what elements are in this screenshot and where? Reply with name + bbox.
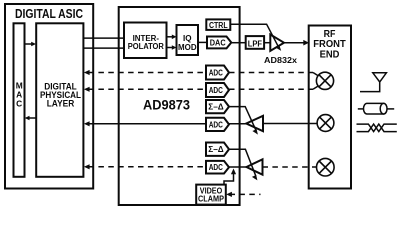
arrow MAC to DPL <box>25 42 37 47</box>
AD9873 box <box>119 7 240 205</box>
svg-text:CTRL: CTRL <box>209 20 228 30</box>
dashed wire amp2 to mixer3 <box>263 166 318 168</box>
svg-text:ADC: ADC <box>209 162 223 172</box>
IQ mod box <box>177 25 199 55</box>
svg-text:POLATOR: POLATOR <box>128 42 164 51</box>
wires DPL to interpolator <box>83 38 124 48</box>
svg-text:MOD: MOD <box>178 43 197 52</box>
label INTERPOLATOR <box>128 34 164 51</box>
arrows interpolator to IQ mod <box>167 35 177 50</box>
ADC4 port <box>206 161 229 174</box>
svg-text:ADC: ADC <box>209 67 223 77</box>
dashed video input wire with arrow into video clamp <box>226 192 260 197</box>
label DIGITAL PHYSICAL LAYER <box>40 82 81 109</box>
wire DAC to LPF <box>231 42 245 44</box>
mixer 2 <box>317 115 334 132</box>
svg-text:AD832x: AD832x <box>264 55 297 65</box>
wire amp to RF front end with arrow <box>284 40 309 46</box>
coax cable cylinder <box>358 103 394 114</box>
wire IQ mod to DAC <box>198 41 207 43</box>
dashed wire ADC4 to DPL with arrow <box>84 164 206 169</box>
RX amp 1 <box>246 116 263 131</box>
svg-text:IQ: IQ <box>183 34 192 43</box>
label IQ MOD <box>178 34 197 52</box>
sigma-delta 1 port <box>206 100 229 113</box>
ADC3 port <box>206 118 229 131</box>
MAC letters <box>16 80 23 108</box>
antenna <box>360 73 386 92</box>
LPF box <box>246 36 264 49</box>
svg-text:C: C <box>16 99 22 109</box>
wire amp1 to mixer2 <box>263 123 317 125</box>
svg-text:Σ–Δ: Σ–Δ <box>208 144 223 154</box>
RX amp 2 <box>247 159 263 174</box>
CTRL port <box>206 19 230 30</box>
arrow DPL to MAC <box>25 116 36 121</box>
video clamp box <box>196 185 226 205</box>
sigma-delta 1 wire with gain arrow into RX amp1 <box>229 107 258 135</box>
interpolator box <box>124 23 167 59</box>
digital ASIC outer box <box>5 4 93 189</box>
label RF FRONT END <box>313 29 345 61</box>
video clamp up elbow arrow to ADC4 input <box>224 169 236 185</box>
dashed wire ADC1 to DPL with arrow <box>84 70 206 75</box>
twisted pair <box>357 124 397 132</box>
digital physical layer block <box>36 23 83 177</box>
sigma-delta 2 wire with gain arrow into RX amp2 <box>229 149 257 180</box>
svg-text:ADC: ADC <box>209 85 223 95</box>
sigma-delta 2 port <box>206 143 229 156</box>
TX VGA amp AD832x <box>270 35 284 51</box>
DAC port <box>207 37 231 49</box>
dashed wire ADC2 to DPL with arrow <box>84 87 206 92</box>
svg-text:DIGITAL ASIC: DIGITAL ASIC <box>15 6 83 21</box>
svg-text:AD9873: AD9873 <box>143 96 190 112</box>
svg-text:DAC: DAC <box>210 37 226 47</box>
wire LPF to amp <box>264 42 270 44</box>
svg-text:CLAMP: CLAMP <box>198 193 224 203</box>
svg-text:END: END <box>320 50 340 61</box>
dashed wire ADC2 to mixer1 <box>229 86 319 90</box>
ADC2 port <box>206 83 229 97</box>
mixer 3 <box>317 158 335 176</box>
CTRL wire with gain-control arrow through amp <box>230 24 281 51</box>
svg-text:Σ–Δ: Σ–Δ <box>208 101 223 111</box>
ADC1 port <box>206 66 229 80</box>
MAC block <box>14 23 25 177</box>
dashed wire ADC1 to mixer1 <box>229 73 319 77</box>
solid wire ADC3 to DPL with arrow <box>84 121 206 126</box>
svg-text:LAYER: LAYER <box>47 99 75 109</box>
wire amp2 to ADC4 <box>229 166 247 168</box>
wire amp1 to ADC3 <box>229 123 246 125</box>
RF front end box <box>309 26 351 189</box>
svg-text:LPF: LPF <box>248 38 262 48</box>
svg-text:ADC: ADC <box>209 119 223 129</box>
mixer 1 <box>316 72 333 89</box>
